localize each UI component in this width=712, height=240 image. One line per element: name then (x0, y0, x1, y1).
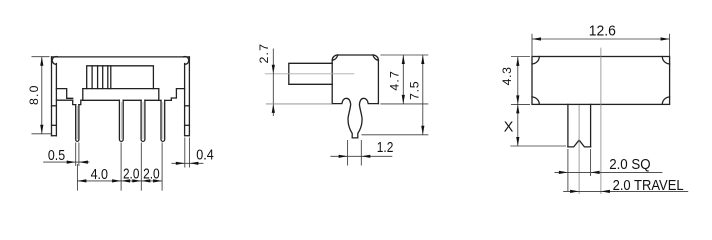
dim X bottom extension (510, 145, 566, 147)
knob center line (578, 105, 580, 194)
corner arc top-left (532, 57, 539, 64)
knob bottom with chevron (568, 140, 591, 147)
dim X line (517, 104, 519, 146)
knob knurl line 4 (107, 66, 109, 89)
front view dimensions (32, 57, 204, 191)
pin 1 shoulder (73, 100, 83, 104)
dim 4.7 bottom extension (380, 103, 428, 105)
dim 4.3/X mid extension (511, 103, 530, 105)
base bottom right of riser (159, 99, 172, 101)
knob outline (87, 66, 154, 89)
dim 4.7 line (402, 55, 404, 104)
dim 4.3 top extension (511, 56, 530, 58)
dim 4.7/7.5 top extension (380, 54, 428, 56)
body top-right corner outer arc (373, 55, 378, 60)
body top-left corner inner arc (332, 55, 338, 60)
body top-left corner outer arc (332, 55, 338, 60)
actuator knob (289, 63, 332, 84)
dim 4.7 arrows (402, 55, 405, 64)
dim 0.5 tails (43, 161, 89, 163)
body left edge (331, 60, 333, 103)
dim 2.0 arrows (121, 179, 130, 182)
dim 8.0 line (41, 57, 43, 134)
base left riser (82, 89, 84, 101)
dim 2.0 SQ arrows (559, 171, 568, 174)
dim 12.6 extension lines (532, 34, 670, 57)
dim 2.7 arrows (272, 65, 275, 74)
svg-text:12.6: 12.6 (589, 23, 616, 39)
left cover step (56, 89, 72, 99)
cover right tab outer edge (188, 57, 190, 136)
dim 12.6 arrows (532, 37, 541, 40)
dim 2.0 SQ line (554, 171, 662, 173)
svg-text:4.7: 4.7 (387, 71, 401, 91)
right tab tick 1 (185, 105, 190, 107)
dim 4.0/2.0/2.0 line (77, 180, 162, 182)
svg-text:2.0: 2.0 (123, 166, 139, 182)
dim 0.5 extension lines (76, 143, 79, 167)
pin 2 shaft (119, 100, 123, 141)
cover top edge (52, 56, 190, 58)
dim 0.4 tails (171, 162, 203, 164)
dim 4.3 line (517, 57, 519, 105)
cover left tab outer edge (51, 57, 53, 136)
view center line (600, 48, 602, 194)
base bottom segments (83, 99, 159, 101)
right tab tick 2 (185, 124, 190, 126)
right cover step (171, 89, 184, 101)
cover left tab inner edge (55, 64, 57, 136)
pin 1 shaft (76, 105, 79, 142)
cover right tab inner edge (184, 64, 186, 136)
dim 2.7 bottom extension (266, 103, 332, 105)
base top edge (83, 88, 159, 90)
knob knurl line 2 (97, 66, 99, 89)
svg-text:7.5: 7.5 (407, 81, 421, 100)
dim 2.0 TRAVEL line (563, 190, 688, 192)
corner arc top-right (662, 57, 669, 64)
side view dimensions (266, 49, 429, 166)
knob knurl boundary (110, 66, 112, 89)
dim 0.4 extension lines (185, 138, 190, 168)
dim 12.6 line (532, 38, 670, 40)
knob knurl line 1 (91, 66, 93, 89)
pin shading center lines (77, 102, 163, 139)
left tab tick 2 (52, 124, 57, 126)
left cover bottom line (56, 99, 72, 101)
knob right edge (590, 104, 592, 146)
top view dimensions (510, 34, 688, 192)
svg-text:2.0 TRAVEL: 2.0 TRAVEL (613, 178, 684, 194)
dim 7.5 line (422, 55, 424, 135)
body top-right corner inner arc (373, 55, 378, 60)
pin 4 shaft (161, 100, 165, 141)
dim X arrows (516, 104, 519, 113)
dim 1.2 tails (330, 155, 392, 157)
dim 8.0 extension bottom (32, 133, 52, 135)
dim 7.5 bottom extension (361, 134, 428, 136)
knob knurl line 3 (102, 66, 104, 89)
dim 0.5 arrows (67, 161, 76, 164)
dim 4.3 arrows (516, 57, 519, 66)
dim 8.0 arrows (40, 57, 43, 66)
dim 2.0b arrows (141, 179, 150, 182)
knob edge extension lines (568, 149, 591, 191)
corner arc bottom-right (662, 97, 669, 104)
svg-text:0.4: 0.4 (196, 148, 214, 164)
svg-text:2.0 SQ: 2.0 SQ (609, 157, 650, 173)
dim 1.2 extension lines (348, 140, 362, 166)
dim 1.2 arrows (339, 155, 348, 158)
knob left edge (567, 104, 569, 146)
svg-text:1.2: 1.2 (377, 140, 394, 156)
left tab bottom cap (52, 135, 57, 137)
right tab bottom cap (185, 135, 190, 137)
left tab tick 1 (52, 105, 57, 107)
corner arc bottom-left (532, 97, 539, 104)
dim 8.0 extension top (32, 56, 50, 58)
dim 0.4 arrows (176, 162, 185, 165)
body rectangle (532, 57, 670, 105)
svg-text:2.0: 2.0 (143, 166, 160, 182)
svg-text:4.3: 4.3 (500, 67, 514, 86)
pin center extension lines (77, 143, 162, 191)
base right riser (158, 89, 160, 101)
svg-text:8.0: 8.0 (27, 85, 41, 105)
top-right corner arc (183, 57, 189, 65)
dim 2.0 TRAVEL arrows (570, 190, 579, 193)
knob mid gray line (265, 73, 355, 75)
svg-text:2.7: 2.7 (257, 44, 271, 64)
body bottom and solder lug (332, 98, 378, 138)
body right edge (377, 60, 379, 103)
pin 3 shaft (141, 100, 145, 141)
svg-text:0.5: 0.5 (48, 148, 65, 164)
svg-text:X: X (504, 120, 514, 136)
body top edge (338, 54, 373, 56)
svg-text:4.0: 4.0 (91, 167, 108, 183)
dim 2.7 line (272, 49, 274, 117)
dim 4.0 arrows (77, 179, 86, 182)
dim 7.5 arrows (421, 55, 424, 64)
top-left corner arc (52, 57, 58, 65)
